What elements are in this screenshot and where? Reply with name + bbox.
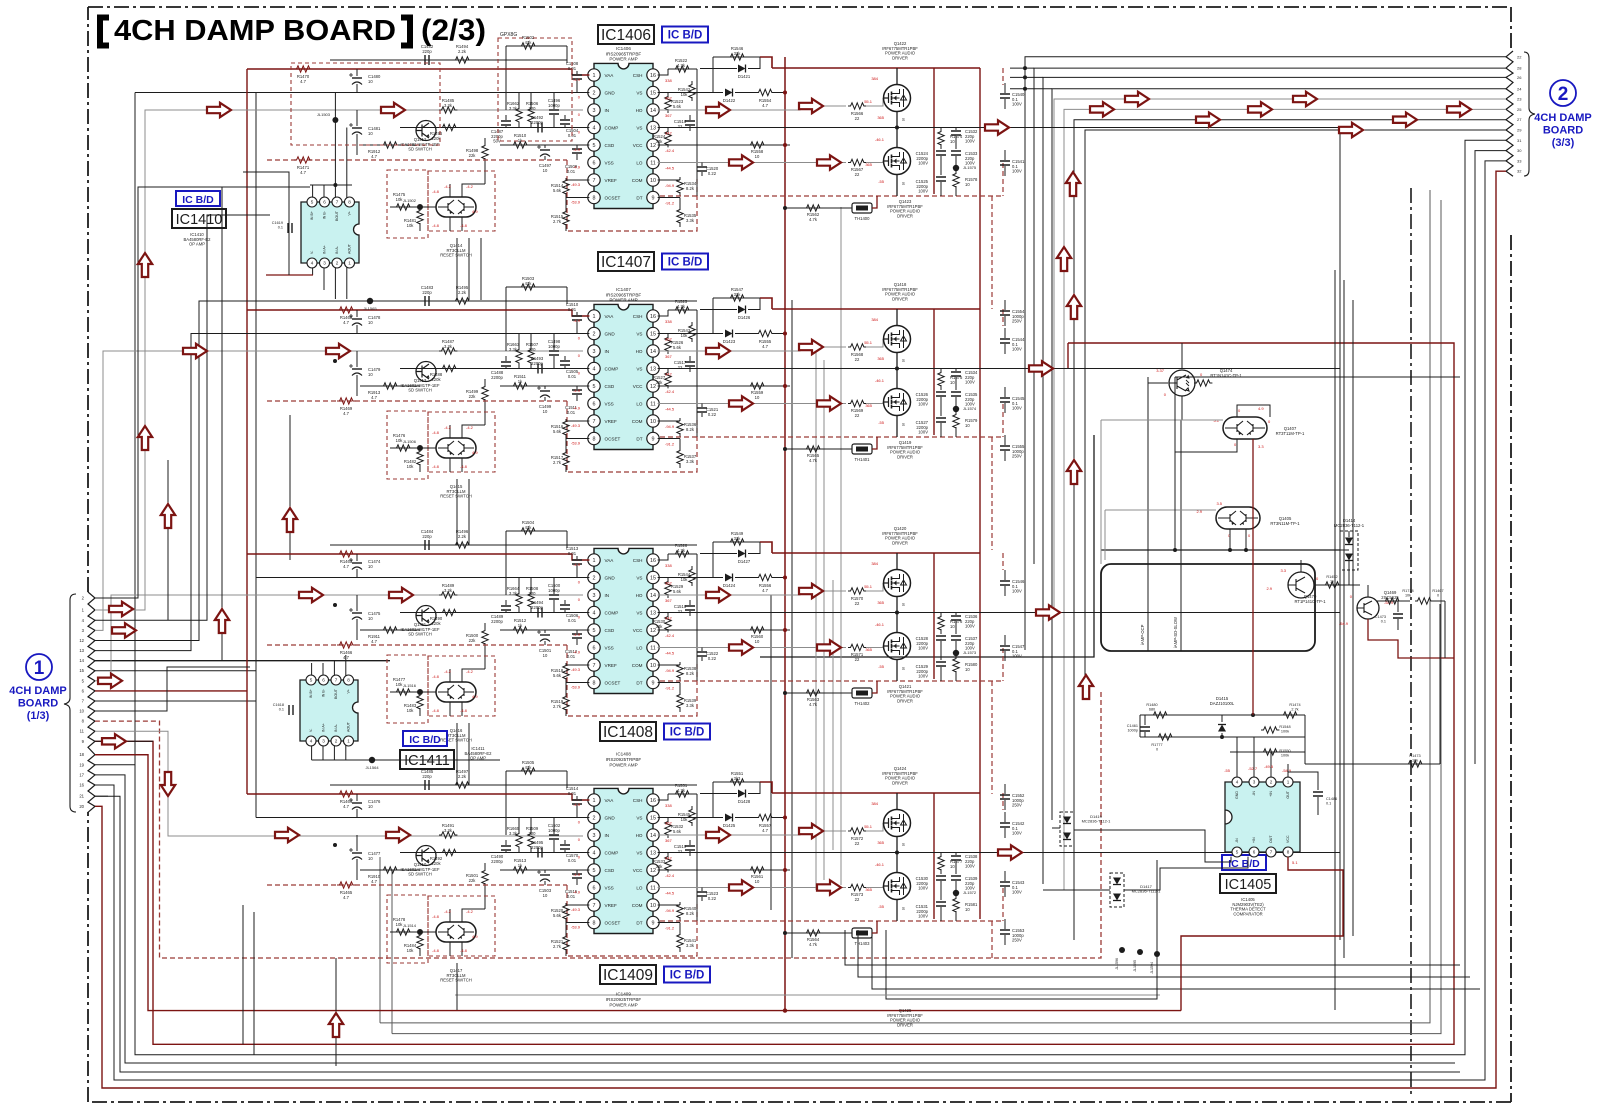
IC1406 pin 6 (VSS) — [588, 156, 600, 168]
svg-text:S: S — [902, 842, 905, 847]
ch3 IN feed from connector pin 5 — [95, 595, 583, 681]
svg-text:1: 1 — [593, 314, 596, 320]
snubber capacitor C1528 — [936, 636, 946, 640]
svg-text:AOUT: AOUT — [348, 243, 352, 254]
resistor R1556 — [756, 574, 774, 580]
svg-text:BOUT: BOUT — [334, 688, 338, 699]
IC1409 pin 1 (VAA) — [588, 794, 600, 806]
svg-text:362: 362 — [665, 581, 672, 586]
svg-text:IC1406: IC1406 — [601, 27, 651, 44]
IC1410 pin 6 — [320, 197, 330, 207]
svg-text:-53.9: -53.9 — [571, 441, 581, 446]
svg-text:22: 22 — [855, 601, 860, 606]
svg-text:10: 10 — [543, 893, 548, 898]
bottom bus maroon line 1086 / connector pin 32 — [95, 171, 1506, 1088]
gate resistor R1571 — [848, 644, 866, 650]
svg-text:220p: 220p — [422, 290, 432, 295]
arrow IN line IC1407 — [183, 344, 207, 358]
svg-text:16: 16 — [650, 73, 656, 79]
svg-text:LO: LO — [636, 885, 643, 890]
diode D1426 — [700, 309, 737, 311]
resistor R1526 — [667, 334, 669, 339]
IC1406 pin 4 (COMP) — [588, 121, 600, 133]
IC1406 pin 16 (CSH) — [647, 69, 659, 81]
FET source wire to dashed rail — [896, 660, 898, 682]
svg-text:362: 362 — [665, 821, 672, 826]
IC1406 pin 13 (VS) — [647, 121, 659, 133]
IC1407 pin 6 (VSS) — [588, 397, 600, 409]
svg-text:-44.5: -44.5 — [665, 891, 675, 896]
thermistor maroon link — [872, 437, 877, 449]
svg-text:220p: 220p — [422, 534, 432, 539]
svg-text:VCC: VCC — [633, 868, 643, 873]
FET source wire to dashed rail — [896, 175, 898, 197]
supply capacitor C1547 — [1004, 635, 1006, 645]
svg-text:V+: V+ — [348, 211, 352, 216]
svg-text:10k: 10k — [407, 464, 415, 469]
svg-text:4.7: 4.7 — [762, 828, 768, 833]
capacitor C1489 — [505, 600, 507, 605]
svg-text:10: 10 — [965, 423, 970, 428]
IC1406 pin 1 (VAA) — [588, 69, 600, 81]
IC1408 pin 11 (LO) — [647, 641, 659, 653]
thermistor TH1401 — [852, 444, 872, 454]
svg-text:1000p: 1000p — [548, 103, 560, 108]
svg-text:3.3: 3.3 — [1258, 444, 1264, 449]
OCSET wire — [566, 682, 589, 684]
svg-text:680: 680 — [1149, 707, 1155, 711]
arrow at 111,680.8 — [98, 674, 122, 688]
reset switch legs — [449, 942, 451, 956]
IC1409 pin 2 (GND) — [588, 811, 600, 823]
svg-text:OUT: OUT — [1286, 790, 1290, 798]
wire between FETs — [896, 112, 898, 148]
svg-text:R1777: R1777 — [1151, 743, 1162, 747]
filter column capacitor C1496 — [553, 93, 555, 110]
reset switch legs — [449, 702, 451, 716]
gate resistor R1572 — [848, 828, 866, 834]
dashed feed upper cap — [1002, 553, 1004, 570]
arrow at 1103,109.4 — [1090, 102, 1114, 116]
VCC wire resistor R1560 — [658, 629, 790, 631]
VAA feed from connector pin 6 — [95, 690, 247, 692]
capacitor C1521 — [701, 404, 703, 408]
svg-text:6: 6 — [322, 678, 325, 683]
svg-text:4.7k: 4.7k — [809, 458, 818, 463]
svg-text:2.2k: 2.2k — [458, 290, 467, 295]
svg-text:JL1574: JL1574 — [963, 406, 977, 411]
svg-text:250V: 250V — [1012, 319, 1022, 324]
dashed VSS net IC1408 — [267, 644, 567, 646]
dot JL junction — [333, 118, 337, 122]
GND wire IC1406 — [256, 92, 589, 94]
svg-text:19: 19 — [79, 762, 84, 767]
power MOSFET Q1423 — [884, 148, 911, 175]
svg-text:OCSET: OCSET — [605, 680, 621, 685]
IC1411 label IC B/D — [403, 731, 447, 746]
svg-text:10: 10 — [368, 564, 373, 569]
svg-text:-44.5: -44.5 — [665, 407, 675, 412]
supply capacitor C1545 — [1004, 387, 1006, 397]
svg-text:11: 11 — [650, 645, 656, 651]
svg-text:2.2k: 2.2k — [458, 774, 467, 779]
wire connector pin 2 riser to IC1410 region — [95, 187, 224, 598]
svg-text:10k: 10k — [407, 708, 415, 713]
IC1411 pin 6 — [319, 675, 329, 685]
svg-text:C1618: C1618 — [273, 703, 284, 707]
svg-text:47k: 47k — [525, 281, 533, 286]
svg-text:10: 10 — [965, 907, 970, 912]
dashed link to next channel — [991, 196, 993, 309]
capacitor C1509 near VSS pin — [576, 145, 578, 148]
arrow at 1460,109.4 — [1447, 102, 1471, 116]
connector 2 circled number — [1550, 80, 1576, 106]
IC1407 pin 5 (CSD) — [588, 380, 600, 392]
diode D1427 — [700, 553, 737, 555]
snubber capacitor C1538 — [955, 853, 957, 856]
svg-text:4.7: 4.7 — [300, 170, 306, 175]
svg-text:3.3k: 3.3k — [686, 703, 695, 708]
svg-text:iAMP-OCP: iAMP-OCP — [1140, 624, 1145, 645]
svg-text:CSD: CSD — [605, 143, 615, 148]
svg-text:-4.8: -4.8 — [460, 464, 468, 469]
electrolytic capacitor C1501 — [544, 630, 546, 633]
IC1405 pin 3 — [1249, 777, 1259, 787]
svg-text:17: 17 — [79, 772, 84, 777]
svg-text:2: 2 — [593, 815, 596, 821]
resistor R1555 — [756, 330, 774, 336]
COMP wire IC1407 — [400, 368, 589, 370]
svg-text:D1426: D1426 — [738, 315, 751, 320]
svg-text:DT: DT — [636, 920, 642, 925]
resistor R1496 — [440, 124, 458, 130]
IC1410 pin 8 — [345, 197, 355, 207]
dot JL1506 — [417, 445, 423, 451]
svg-text:C1619: C1619 — [272, 221, 283, 225]
arrow VS output — [985, 120, 1009, 134]
svg-text:250V: 250V — [1012, 454, 1022, 459]
arrow at 1306,99 — [1293, 92, 1317, 106]
svg-text:IRS20925TRPBF: IRS20925TRPBF — [606, 757, 642, 762]
svg-text:-4.2: -4.2 — [466, 909, 474, 914]
arrow at 168,785 — [161, 772, 175, 796]
svg-text:TH1403: TH1403 — [855, 941, 871, 946]
svg-text:13: 13 — [650, 366, 656, 372]
svg-text:1: 1 — [593, 73, 596, 79]
top bus wire to pin 23 — [1054, 99, 1506, 610]
electrolytic capacitor C1475 — [356, 595, 358, 611]
svg-text:OUT: OUT — [1269, 835, 1273, 843]
IC1411 pin 4 — [306, 736, 316, 746]
svg-text:22: 22 — [1517, 54, 1522, 59]
dual transistor Q1414 reset switch — [436, 197, 476, 217]
wire between FETs — [896, 837, 898, 873]
svg-text:10: 10 — [368, 372, 373, 377]
svg-text:0: 0 — [1437, 593, 1439, 597]
maroon loop from IC1405 — [1181, 857, 1343, 1011]
resistor R1503 feedback — [506, 286, 567, 288]
arrow LO 1 — [729, 155, 753, 169]
svg-text:4.7k: 4.7k — [809, 942, 818, 947]
svg-text:250V: 250V — [1012, 803, 1022, 808]
IC1410 pin 3 — [320, 258, 330, 268]
filter column capacitor C1500 — [553, 578, 555, 595]
svg-text:33k: 33k — [734, 51, 742, 56]
svg-text:IN: IN — [605, 349, 610, 354]
svg-text:-49.3: -49.3 — [571, 667, 581, 672]
svg-text:6: 6 — [593, 401, 596, 407]
supply capacitor C1543 — [1004, 871, 1006, 881]
maroon drain rail IC1407 — [772, 308, 980, 310]
svg-text:100V: 100V — [918, 189, 928, 194]
capacitor C1514 near VAA pin — [576, 796, 578, 799]
IC1408 label box — [600, 722, 656, 741]
right bundle vertical x=1340 — [1339, 127, 1341, 940]
arrow at 1086,686 — [1079, 675, 1093, 699]
svg-text:10: 10 — [755, 879, 760, 884]
svg-text:33k: 33k — [734, 292, 742, 297]
svg-text:GND: GND — [605, 90, 616, 95]
mid vertical bundle x=824 — [823, 360, 825, 880]
resistor R1490 — [440, 609, 458, 615]
IC1409 pin 12 (VCC) — [647, 864, 659, 876]
svg-text:SD SWITCH: SD SWITCH — [408, 632, 432, 637]
supply capacitor C1542 — [1004, 812, 1006, 822]
svg-text:5: 5 — [311, 200, 314, 205]
svg-text:VREF: VREF — [605, 419, 617, 424]
snubber capacitor C1531 — [936, 902, 946, 906]
arrow HO 1 — [706, 103, 730, 117]
svg-text:342: 342 — [665, 131, 672, 136]
svg-text:D1427: D1427 — [738, 559, 751, 564]
svg-text:5.6k: 5.6k — [673, 345, 682, 350]
svg-text:16: 16 — [650, 798, 656, 804]
svg-text:VS: VS — [636, 815, 642, 820]
svg-text:COMPARATOR: COMPARATOR — [1233, 911, 1262, 916]
DT resistor R1535 — [658, 197, 680, 199]
thermistor maroon link — [872, 196, 877, 208]
svg-text:S: S — [902, 666, 905, 671]
svg-text:6: 6 — [1253, 850, 1256, 855]
svg-text:OP AMP: OP AMP — [189, 242, 205, 247]
svg-text:8: 8 — [593, 920, 596, 926]
dot JL1575 — [953, 165, 959, 171]
svg-text:100V: 100V — [1012, 831, 1022, 836]
svg-text:4CH DAMP BOARD: 4CH DAMP BOARD — [114, 15, 396, 47]
wire (bus 1023 left riser) — [379, 857, 381, 1023]
thermistor TH1400 — [852, 203, 872, 213]
svg-text:11: 11 — [80, 729, 85, 734]
snubber capacitor C1536 — [955, 613, 957, 616]
resistor R1471 — [294, 157, 312, 163]
svg-text:2: 2 — [593, 575, 596, 581]
svg-text:HO: HO — [636, 349, 643, 354]
IC1406 pin 2 (GND) — [588, 86, 600, 98]
svg-text:HO: HO — [636, 593, 643, 598]
svg-text:0.22: 0.22 — [708, 896, 717, 901]
svg-text:SD SWITCH: SD SWITCH — [408, 872, 432, 877]
resistor R1529 — [667, 578, 669, 583]
gate resistor R1566 — [848, 103, 866, 109]
svg-text:12: 12 — [79, 638, 84, 643]
svg-text:RESET SWITCH: RESET SWITCH — [440, 978, 472, 983]
HO gray wire IC1408 — [658, 591, 846, 595]
svg-text:33k: 33k — [734, 536, 742, 541]
svg-text:10: 10 — [543, 168, 548, 173]
svg-text:OCSET: OCSET — [605, 195, 621, 200]
svg-text:2.7k: 2.7k — [553, 219, 562, 224]
resistor R1532 — [667, 818, 669, 823]
filter column resistor R1507 — [530, 334, 532, 350]
IC1407 pin 10 (COM) — [647, 415, 659, 427]
svg-text:23: 23 — [1517, 97, 1522, 102]
svg-text:D1424: D1424 — [723, 583, 736, 588]
CSH network wire IC1408 — [658, 554, 668, 560]
capacitor C1508 near VAA pin — [576, 71, 578, 74]
IC1406 pin 7 (VREF) — [588, 174, 600, 186]
svg-text:-4.2: -4.2 — [466, 669, 474, 674]
resistor R1564 — [804, 930, 822, 936]
dot JL1514 — [417, 929, 423, 935]
LO gray wire IC1409 — [658, 887, 846, 889]
maroon rail risers — [933, 309, 935, 435]
Q1474 wires — [1148, 377, 1168, 383]
svg-text:VREF: VREF — [605, 663, 617, 668]
svg-text:-49.5: -49.5 — [1264, 764, 1274, 769]
arrow IN line IC1408 — [299, 588, 323, 602]
dual transistor Q1405 — [1216, 507, 1260, 529]
svg-text:CSD: CSD — [605, 384, 615, 389]
svg-text:1000p: 1000p — [548, 344, 560, 349]
VS pin13 long wire IC1406 — [658, 127, 1340, 129]
wire mid verticals ch3-ch4 B — [468, 723, 470, 785]
svg-text:IC B/D: IC B/D — [670, 727, 705, 739]
svg-text:31: 31 — [1517, 138, 1522, 143]
svg-text:26: 26 — [1517, 75, 1522, 80]
diode D1415 cluster rails — [1140, 714, 1305, 716]
svg-text:VS: VS — [636, 331, 642, 336]
arrow at 1073,183 — [1066, 172, 1080, 196]
svg-text:3.3k: 3.3k — [444, 588, 453, 593]
arrow at 336,1024 — [329, 1013, 343, 1037]
resistor R1465 — [337, 882, 355, 888]
IC1407 pin 9 (DT) — [647, 432, 659, 444]
svg-text:(2/3): (2/3) — [421, 14, 486, 47]
svg-text:IRS20965TRPBF: IRS20965TRPBF — [606, 51, 642, 56]
R1473 net riser — [1156, 954, 1158, 999]
svg-text:362: 362 — [665, 337, 672, 342]
arrow VS output — [998, 845, 1022, 859]
svg-text:2200p: 2200p — [531, 605, 543, 610]
svg-text:DRIVER: DRIVER — [897, 698, 913, 703]
svg-text:RT3T11M-TP-1: RT3T11M-TP-1 — [1276, 431, 1305, 436]
svg-text:POWER AMP: POWER AMP — [609, 298, 637, 303]
IC1408 pin 14 (HO) — [647, 589, 659, 601]
filter column resistor R1664 — [518, 578, 520, 594]
svg-text:R1467: R1467 — [1432, 589, 1443, 593]
svg-text:VS: VS — [636, 850, 642, 855]
arrow at 122,609 — [109, 602, 133, 616]
supply capacitor C1554 — [1004, 300, 1006, 310]
connector pin 30 drop wire — [1475, 151, 1506, 764]
DT resistor R1537 — [658, 438, 680, 440]
electrolytic capacitor C1478 — [356, 310, 358, 317]
svg-text:-94.9: -94.9 — [665, 668, 675, 673]
capacitor C1520 — [701, 163, 703, 167]
svg-text:-4.8: -4.8 — [432, 223, 440, 228]
svg-text:S: S — [902, 181, 905, 186]
VREF resistor R1518 — [566, 665, 589, 666]
resistor R1521 — [565, 923, 567, 938]
svg-text:7: 7 — [1270, 850, 1273, 855]
resistor R1912 — [360, 144, 420, 146]
bottom bus black line 1080 / connector pin 33 — [95, 161, 1506, 1080]
svg-text:IC1406: IC1406 — [616, 46, 631, 51]
svg-text:DT: DT — [636, 195, 642, 200]
svg-text:VSS: VSS — [605, 885, 614, 890]
svg-text:S: S — [902, 117, 905, 122]
IC1407 pin 14 (HO) — [647, 345, 659, 357]
VCC wire resistor R1558 — [658, 144, 790, 146]
svg-text:-53.9: -53.9 — [571, 925, 581, 930]
svg-text:365: 365 — [865, 403, 872, 408]
svg-text:4.9: 4.9 — [1258, 406, 1264, 411]
svg-text:2.2k: 2.2k — [458, 534, 467, 539]
IC1410 pin 1 — [345, 258, 355, 268]
filter column capacitor C1502 — [553, 818, 555, 835]
svg-text:4.7: 4.7 — [371, 879, 377, 884]
snubber column resistor R1576 — [940, 613, 942, 618]
svg-text:100V: 100V — [918, 430, 928, 435]
svg-text:C1486: C1486 — [1326, 797, 1337, 801]
svg-text:220: 220 — [529, 591, 537, 596]
svg-text:LO: LO — [636, 160, 643, 165]
capacitor C1522 — [701, 648, 703, 652]
IC1407 pin 15 (VS) — [647, 327, 659, 339]
svg-text:7: 7 — [335, 678, 338, 683]
maroon VAA wire IC1408 — [247, 554, 589, 560]
svg-text:0.1: 0.1 — [278, 225, 283, 229]
svg-text:IC B/D: IC B/D — [409, 734, 441, 746]
svg-text:5.6k: 5.6k — [553, 429, 562, 434]
title bracket left — [100, 18, 109, 46]
IC1411 pin 2 — [331, 736, 341, 746]
bottom bus dashed maroon 958 — [95, 692, 1101, 958]
svg-text:-46.1: -46.1 — [875, 862, 885, 867]
arrow IN line IC1409 — [275, 828, 299, 842]
supply capacitor C1552 — [1004, 784, 1006, 794]
svg-text:22: 22 — [855, 116, 860, 121]
svg-text:D1421: D1421 — [738, 74, 751, 79]
VS pin13 long wire IC1408 — [658, 612, 1340, 614]
svg-text:22: 22 — [855, 657, 860, 662]
snubber capacitor C1524 — [936, 151, 946, 155]
svg-text:384: 384 — [871, 76, 878, 81]
thermistor maroon link — [872, 921, 877, 933]
capacitor C1484 — [425, 540, 429, 550]
IN wire resistor R1489 — [439, 592, 457, 598]
wire connector pin 13 riser — [95, 334, 256, 651]
svg-text:338: 338 — [665, 803, 672, 808]
resistor R1498 — [484, 138, 486, 146]
svg-text:3.3k: 3.3k — [509, 591, 518, 596]
svg-text:2.7k: 2.7k — [553, 704, 562, 709]
svg-text:0.01: 0.01 — [567, 654, 576, 659]
svg-text:7: 7 — [593, 663, 596, 669]
capacitor C1523 — [701, 888, 703, 892]
snubber capacitor C1527 — [936, 418, 946, 422]
top bus left extensions — [1010, 67, 1034, 69]
